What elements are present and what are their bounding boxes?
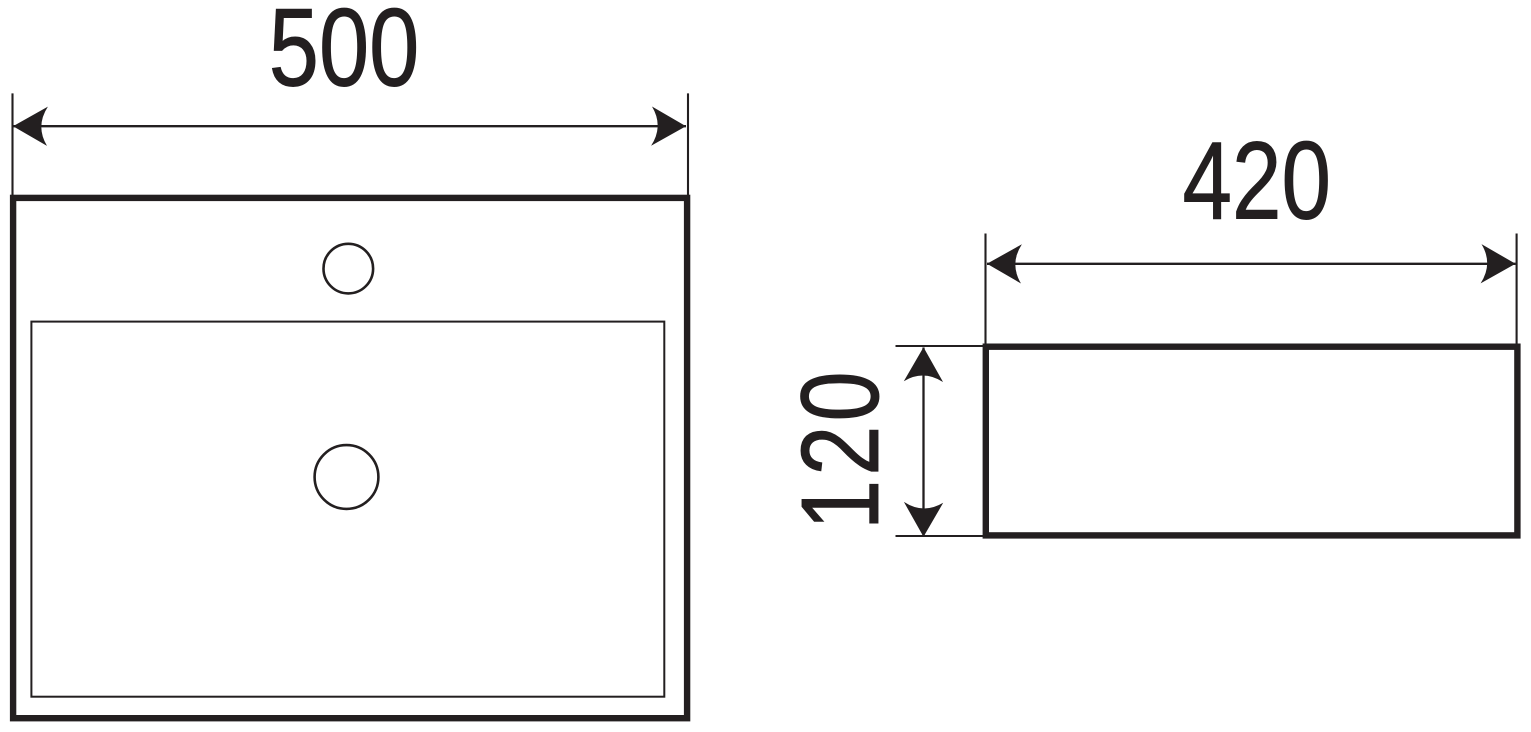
sink top view: outer basin outline (13, 198, 687, 718)
faucet hole (324, 244, 374, 294)
svg-text:120: 120 (779, 367, 901, 530)
dim 500: left arrowhead (13, 107, 48, 146)
dim 120: top extension line (896, 345, 984, 347)
dim 420: dimension line (987, 263, 1516, 265)
dim 420: left extension line (984, 234, 986, 345)
dim 420: left arrowhead (987, 244, 1022, 283)
dim 500: right extension line (687, 93, 689, 195)
svg-text:420: 420 (1183, 120, 1332, 243)
side view: body outline (986, 347, 1518, 536)
dim 500: left extension line (11, 93, 13, 195)
dim 420: right extension line (1516, 234, 1518, 345)
dim 120: bottom extension line (896, 535, 984, 537)
dim 500: dimension line (13, 125, 686, 127)
dim 120: top arrowhead (904, 347, 943, 382)
dim 120: bottom arrowhead (904, 502, 943, 537)
svg-text:500: 500 (269, 0, 420, 110)
dim 500: right arrowhead (651, 106, 686, 145)
dim 120: dimension line (922, 348, 924, 537)
drain hole (315, 445, 379, 509)
sink top view: inner basin outline (31, 322, 664, 697)
dim 420: right arrowhead (1481, 244, 1516, 283)
